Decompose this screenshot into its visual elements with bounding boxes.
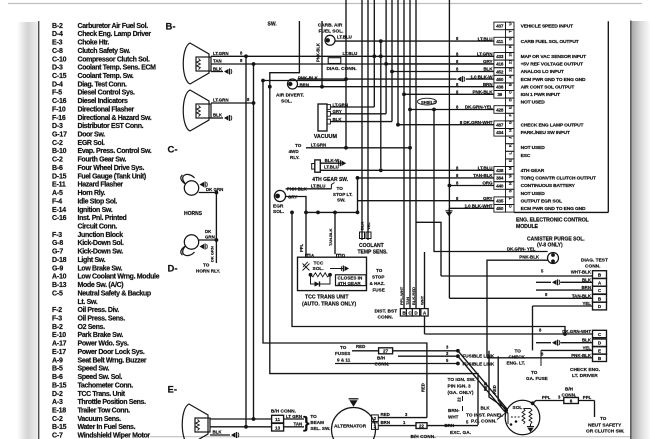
svg-text:A-17: A-17 (52, 341, 67, 348)
svg-text:Fuel Gauge (Tank Unit): Fuel Gauge (Tank Unit) (78, 173, 146, 180)
wire PPL to B/H conn 6 (533, 401, 564, 404)
svg-text:S: S (508, 189, 513, 192)
svg-text:487: 487 (496, 123, 504, 128)
legend component index (52, 23, 160, 439)
wire BRN diag (536, 289, 593, 291)
svg-text:Speed Sw. Sol.: Speed Sw. Sol. (78, 374, 123, 381)
svg-text:DK GRN: DK GRN (206, 187, 223, 192)
svg-text:Carburetor Air Fuel Sol.: Carburetor Air Fuel Sol. (78, 23, 149, 30)
svg-text:22: 22 (419, 423, 424, 428)
svg-text:TAN: TAN (213, 59, 222, 64)
svg-text:BRN: BRN (381, 420, 391, 425)
svg-text:E-17: E-17 (52, 349, 66, 356)
svg-text:G-17: G-17 (52, 132, 67, 139)
svg-text:LT GRN: LT GRN (286, 414, 302, 419)
svg-text:C-2: C-2 (52, 416, 63, 423)
svg-text:B: B (508, 83, 513, 86)
svg-text:FUSIBLE LINK: FUSIBLE LINK (463, 354, 495, 359)
svg-text:ECM PWR GND TO ENG GND: ECM PWR GND TO ENG GND (521, 206, 586, 212)
svg-text:WHT: WHT (419, 295, 424, 305)
svg-text:PNK-BLK: PNK-BLK (316, 43, 321, 62)
svg-text:E-: E- (168, 385, 178, 396)
svg-text:Horn Rly.: Horn Rly. (78, 190, 106, 197)
svg-text:CHECK ENG LAMP OUTPUT: CHECK ENG LAMP OUTPUT (521, 122, 584, 128)
svg-text:9 & 11: 9 & 11 (337, 358, 351, 363)
svg-text:Diesel Indicators: Diesel Indicators (78, 98, 129, 105)
svg-text:BLK: BLK (213, 113, 223, 118)
svg-text:VEHICLE SPEED INPUT: VEHICLE SPEED INPUT (521, 24, 573, 30)
coil TCC (311, 273, 331, 277)
svg-text:G-7: G-7 (52, 249, 63, 256)
svg-text:452: 452 (496, 69, 504, 74)
horn C1 (184, 181, 198, 195)
svg-text:436: 436 (496, 85, 504, 90)
wire diag test BRN (593, 286, 607, 294)
svg-text:4WD: 4WD (289, 149, 300, 154)
svg-text:DK.GRN-WHT: DK.GRN-WHT (562, 329, 591, 334)
solenoid EGR (274, 190, 285, 201)
vacuum sensor (318, 104, 327, 131)
svg-text:PIN IGN. 3: PIN IGN. 3 (448, 384, 472, 390)
wire EGR LT.BLU to stop lt sw (286, 188, 332, 190)
svg-text:438: 438 (496, 168, 504, 173)
wire DK.GRN-YEL to pin 428 (410, 109, 494, 111)
svg-text:U: U (508, 22, 513, 25)
wire LT.GRN horn B1 (211, 55, 494, 57)
svg-text:ENG. LT.: ENG. LT. (507, 361, 526, 366)
wire vertical to B/H conn 13 (245, 56, 247, 427)
svg-text:OUTPUT EGR SOL: OUTPUT EGR SOL (521, 198, 563, 204)
svg-text:TO: TO (600, 416, 607, 421)
connector inside TCC (330, 268, 344, 270)
svg-text:D-18: D-18 (52, 257, 67, 264)
svg-text:F: F (508, 113, 513, 116)
svg-text:MODULE: MODULE (516, 224, 539, 230)
wire YEL check eng (541, 349, 593, 351)
svg-text:TCC: TCC (314, 261, 324, 267)
svg-text:J: J (508, 137, 513, 139)
svg-text:A-5: A-5 (52, 190, 63, 197)
wire TCC pin D vertical (338, 254, 340, 257)
wire WHT-BLK diag (441, 275, 593, 277)
svg-text:RED: RED (483, 382, 488, 391)
wire vertical x=346 (345, 0, 347, 148)
wire LT.BLU 4th gear to pin 438 (320, 169, 494, 171)
svg-text:}: } (303, 413, 310, 432)
solenoid air diverter (288, 79, 298, 89)
svg-text:TORQ CONVTR CLUTCH OUTPUT: TORQ CONVTR CLUTCH OUTPUT (521, 176, 596, 182)
wire BLK diag with connector (536, 281, 551, 283)
svg-text:20: 20 (508, 51, 513, 56)
svg-text:EXC. GA.: EXC. GA. (450, 430, 471, 436)
svg-text:ANALOG LO INPUT: ANALOG LO INPUT (521, 69, 564, 75)
svg-text:Directional Flasher: Directional Flasher (78, 106, 135, 113)
svg-text:(V-8 ONLY): (V-8 ONLY) (537, 243, 563, 249)
svg-text:GRY: GRY (288, 195, 297, 200)
sensor coolant temp (360, 232, 365, 239)
svg-text:C-8: C-8 (52, 48, 63, 55)
ground inside sol (530, 424, 532, 427)
svg-text:BRN-: BRN- (448, 408, 460, 413)
svg-text:YEL: YEL (582, 301, 591, 306)
wire vertical x=416 (415, 0, 417, 309)
svg-text:TCC Trans. Unit: TCC Trans. Unit (78, 391, 126, 398)
svg-text:450: 450 (496, 206, 504, 211)
shield loop symbol (418, 98, 437, 105)
svg-text:Coolant Temp. Sens. ECM: Coolant Temp. Sens. ECM (78, 65, 157, 72)
wire DK.GRN-WHT check eng (425, 333, 593, 335)
svg-text:B-13: B-13 (52, 282, 67, 289)
svg-text:PNK-BLK: PNK-BLK (571, 353, 592, 358)
wire EGR GRY bus (286, 197, 306, 258)
svg-text:HORN RLY.: HORN RLY. (196, 269, 220, 274)
svg-text:E: E (598, 348, 601, 353)
svg-text:Idle Stop Sol.: Idle Stop Sol. (78, 198, 118, 205)
svg-text:E-10: E-10 (52, 332, 66, 339)
wire TAN-BLK to pin 384 (358, 177, 494, 179)
svg-text:BLK: BLK (481, 406, 491, 411)
svg-text:SW.: SW. (337, 198, 345, 203)
wire BLK to pin 452 (392, 71, 494, 73)
svg-text:E: E (508, 106, 513, 109)
wire diag test WHT-BLK (593, 271, 607, 279)
svg-text:H: H (508, 129, 513, 132)
svg-text:WHT-BLK: WHT-BLK (571, 270, 592, 275)
svg-text:B-5: B-5 (52, 366, 63, 373)
svg-text:N: N (508, 182, 513, 185)
svg-text:ENG. ELECTRONIC CONTROL: ENG. ELECTRONIC CONTROL (516, 218, 590, 224)
horn B2 (speaker) (183, 90, 209, 131)
svg-text:CHECK: CHECK (509, 355, 526, 360)
svg-text:39: 39 (497, 92, 502, 97)
svg-text:CARB FUEL SOL OUTPUT: CARB FUEL SOL OUTPUT (521, 39, 579, 45)
wire diag test YEL (593, 302, 607, 310)
svg-text:F-3: F-3 (52, 316, 62, 323)
svg-text:F-2: F-2 (52, 307, 62, 314)
svg-text:Oil Press. Div.: Oil Press. Div. (78, 307, 120, 314)
top card border (8, 3, 642, 5)
svg-text:IGN 1 PWR INPUT: IGN 1 PWR INPUT (521, 92, 560, 98)
svg-text:D: D (342, 253, 345, 258)
svg-text:F-10: F-10 (52, 106, 66, 113)
svg-text:Diag. Test Conn.: Diag. Test Conn. (78, 81, 128, 88)
svg-text:TO: TO (337, 186, 344, 191)
svg-text:LT.BLU: LT.BLU (337, 35, 352, 40)
ground at pin 450 lower (449, 207, 494, 209)
wire check-eng DK.GRN-WHT (593, 330, 607, 337)
svg-text:NOT USED: NOT USED (521, 145, 546, 151)
svg-text:BLK-W: BLK-W (325, 158, 340, 163)
svg-text:RED: RED (356, 344, 365, 349)
bottom card border (150, 436, 642, 438)
svg-text:PPL: PPL (583, 395, 592, 400)
wire RED alternator (378, 417, 427, 419)
svg-text:BLK: BLK (582, 338, 592, 343)
svg-text:Diesel Control Sys.: Diesel Control Sys. (78, 90, 136, 97)
svg-text:D: D (508, 98, 513, 101)
svg-text:E-11: E-11 (52, 182, 66, 189)
svg-text:C-16: C-16 (52, 215, 67, 222)
svg-text:BLK: BLK (213, 66, 223, 71)
left page curl (17, 22, 39, 439)
svg-text:& HAZ.: & HAZ. (370, 281, 385, 286)
wire vertical x=398 (397, 0, 399, 125)
svg-text:DK.GRN- YEL: DK.GRN- YEL (507, 246, 536, 251)
horn C2 (184, 235, 198, 249)
svg-text:Windshield Wiper Motor: Windshield Wiper Motor (78, 433, 151, 439)
wire LT.BLU carb sol to pin 411 (335, 40, 494, 42)
wire GRY to pin 416 (386, 63, 494, 65)
svg-text:SEL. SW.: SEL. SW. (310, 426, 330, 431)
wire PNK-BLK check eng (487, 357, 593, 359)
svg-text:DIAG. CONN.: DIAG. CONN. (327, 66, 357, 72)
svg-text:Neutral Safety & Backup: Neutral Safety & Backup (78, 290, 151, 297)
svg-text:TAN-BLK: TAN-BLK (328, 228, 333, 246)
svg-text:E-3: E-3 (52, 40, 63, 47)
svg-text:TAN: TAN (405, 297, 410, 305)
svg-text:G: G (508, 121, 513, 124)
svg-text:(AUTO. TRANS ONLY): (AUTO. TRANS ONLY) (302, 301, 356, 307)
svg-text:435: 435 (496, 199, 504, 204)
wire vertical x=386.1 (385, 0, 387, 114)
svg-text:LT.GRN: LT.GRN (213, 51, 229, 56)
svg-text:B-6: B-6 (52, 374, 63, 381)
wire vertical x=374.3 (373, 0, 375, 107)
svg-text:4TH GEAR: 4TH GEAR (338, 281, 362, 286)
diode TCC (311, 275, 315, 284)
svg-text:416: 416 (496, 62, 504, 67)
svg-text:Circuit Conn.: Circuit Conn. (78, 224, 118, 231)
svg-text:Door Sw.: Door Sw. (78, 132, 106, 139)
svg-text:Compressor Clutch Sol.: Compressor Clutch Sol. (78, 56, 150, 63)
svg-text:Junction Block: Junction Block (78, 232, 124, 239)
svg-text:Coolant Temp. Sw.: Coolant Temp. Sw. (78, 73, 134, 80)
svg-text:Evap. Press. Control Sw.: Evap. Press. Control Sw. (78, 148, 152, 155)
wire vertical x=410 (409, 0, 411, 309)
svg-text:C-: C- (168, 145, 178, 156)
closes in 4th gear box (336, 275, 367, 286)
svg-text:GRN: GRN (205, 235, 215, 240)
svg-text:(GA. ONLY): (GA. ONLY) (448, 390, 474, 396)
wire diagonal feeds to solenoid (458, 351, 508, 410)
svg-text:SOL.: SOL. (281, 99, 292, 105)
svg-text:C: C (508, 205, 513, 208)
wire diag test BLK (593, 278, 607, 286)
svg-text:Throttle Position Sens.: Throttle Position Sens. (78, 399, 147, 406)
svg-text:CONN.: CONN. (585, 264, 600, 270)
svg-text:B-2: B-2 (52, 23, 63, 30)
wire to GA fuse (540, 350, 542, 366)
wire fuse 27 to fusible link (393, 350, 458, 352)
svg-text:A: A (508, 76, 513, 79)
wire vertical x=404 (403, 0, 405, 309)
svg-text:CHECK ENG.: CHECK ENG. (570, 367, 600, 373)
wire BRN alternator through fuse 22 (378, 425, 416, 427)
svg-text:WHT: WHT (448, 415, 459, 420)
svg-text:PARK./NEU SW INPUT: PARK./NEU SW INPUT (521, 130, 570, 136)
svg-text:PNK-BLK: PNK-BLK (298, 75, 319, 80)
wire TAN-BLK vertical to TCC pin D (334, 212, 336, 254)
svg-text:RLY.: RLY. (290, 155, 300, 160)
svg-text:YEL: YEL (582, 345, 591, 350)
svg-text:TAN-BLK: TAN-BLK (572, 293, 592, 298)
ECM pin wire colour labels (456, 36, 493, 208)
svg-text:B-: B- (166, 22, 176, 33)
svg-text:B-10: B-10 (52, 148, 67, 155)
svg-text:SOL.: SOL. (273, 209, 284, 215)
wire DK GRN horn C2 (199, 239, 217, 241)
wire BLK wiper with connector (210, 434, 230, 436)
svg-text:TO: TO (376, 268, 383, 273)
svg-text:F-16: F-16 (52, 115, 66, 122)
svg-text:SOL.: SOL. (313, 266, 324, 272)
svg-text:Kick-Down Sol.: Kick-Down Sol. (78, 240, 124, 247)
wire DK GRN horn C1 (199, 192, 217, 194)
svg-text:Check Eng. Lamp Driver: Check Eng. Lamp Driver (78, 31, 152, 38)
svg-text:LT.BLU: LT.BLU (324, 165, 339, 170)
wire bus B (RED feed) (263, 81, 427, 418)
svg-text:CONN.: CONN. (562, 393, 577, 398)
right page curl (631, 21, 650, 439)
svg-text:W: W (508, 174, 513, 178)
svg-text:EGR: EGR (273, 204, 284, 210)
svg-text:D-4: D-4 (52, 81, 63, 88)
svg-text:DK: DK (205, 229, 212, 234)
svg-text:D-3: D-3 (52, 65, 63, 72)
wire check-eng PNK-BLK (593, 354, 607, 361)
svg-text:R: R (508, 45, 513, 48)
svg-text:4TH GEAR SW.: 4TH GEAR SW. (312, 177, 348, 183)
svg-text:433: 433 (496, 54, 504, 59)
svg-text:384: 384 (496, 176, 504, 181)
svg-text:YEL: YEL (366, 222, 371, 230)
svg-text:NOT USED: NOT USED (521, 100, 546, 106)
svg-text:TO: TO (295, 143, 302, 148)
svg-text:SW.: SW. (268, 22, 278, 28)
wire bus A (292, 212, 565, 334)
svg-text:B/H CONN.: B/H CONN. (411, 434, 436, 439)
svg-text:6: 6 (570, 398, 573, 403)
svg-text:Low Brake Sw.: Low Brake Sw. (78, 265, 123, 272)
svg-text:RED: RED (381, 412, 390, 417)
wire BRN to pin 436 (298, 86, 494, 88)
wire to inst panel arrow (497, 413, 506, 420)
wire RED verticals (489, 351, 507, 409)
svg-text:LT.BLU: LT.BLU (311, 183, 326, 188)
svg-text:OR CLUTCH SW.: OR CLUTCH SW. (586, 429, 624, 435)
svg-text:22: 22 (508, 67, 513, 72)
svg-text:Inst. Pnl. Printed: Inst. Pnl. Printed (78, 215, 127, 222)
svg-text:4TH GEAR: 4TH GEAR (521, 168, 545, 174)
wire TAN-BLK diag (449, 297, 592, 299)
svg-text:Light Sw.: Light Sw. (78, 257, 106, 264)
wire BLK horn B1 with connector (211, 71, 223, 73)
svg-text:D-2: D-2 (52, 391, 63, 398)
svg-text:F-4: F-4 (52, 198, 62, 205)
ground alternator top (349, 398, 359, 400)
svg-text:RED: RED (421, 383, 426, 392)
svg-text:Oil Press. Sens.: Oil Press. Sens. (78, 316, 126, 323)
svg-text:D-4: D-4 (52, 31, 63, 38)
svg-text:ALTERNATOR: ALTERNATOR (334, 423, 367, 429)
svg-text:11: 11 (275, 417, 280, 422)
svg-text:Directional & Hazard Sw.: Directional & Hazard Sw. (78, 115, 152, 122)
svg-text:450: 450 (496, 77, 504, 82)
svg-text:F-5: F-5 (52, 90, 62, 97)
svg-text:P.C. CONN.: P.C. CONN. (471, 419, 497, 425)
wire LT.GRN to pin 433 (372, 54, 376, 58)
svg-text:C-15: C-15 (52, 73, 67, 80)
svg-text:G-9: G-9 (52, 265, 63, 272)
relay TCC trans unit box (298, 257, 367, 290)
svg-text:27: 27 (383, 349, 389, 354)
svg-text:B/H: B/H (377, 356, 386, 361)
wire PNK-BLK canister (416, 222, 441, 276)
svg-text:22: 22 (457, 397, 462, 402)
svg-text:LT.GRN: LT.GRN (311, 143, 327, 148)
svg-text:Hazard Flasher: Hazard Flasher (78, 182, 124, 189)
svg-text:RED: RED (492, 385, 497, 394)
wire vacuum BLK (330, 121, 392, 123)
svg-text:CONTINUOUS BATTERY: CONTINUOUS BATTERY (521, 183, 576, 189)
svg-text:D-15: D-15 (52, 173, 67, 180)
svg-text:A-10: A-10 (52, 274, 67, 281)
svg-text:EGR Sol.: EGR Sol. (78, 140, 106, 147)
svg-text:B-2: B-2 (52, 324, 63, 331)
wire YEL diag (533, 305, 593, 307)
svg-text:C-7: C-7 (52, 433, 63, 439)
svg-text:437: 437 (496, 24, 504, 29)
svg-text:PPL: PPL (542, 395, 551, 400)
svg-text:Fourth Gear Sw.: Fourth Gear Sw. (78, 157, 127, 164)
svg-text:BRN: BRN (300, 83, 310, 88)
wire BLK check eng with connector (536, 342, 551, 344)
wire fusible link 2 (335, 363, 458, 365)
svg-text:Low Coolant Wrng. Module: Low Coolant Wrng. Module (78, 274, 160, 281)
svg-text:B-15: B-15 (52, 382, 67, 389)
svg-text:Water In Fuel Sens.: Water In Fuel Sens. (78, 424, 136, 431)
svg-text:BLK-RED: BLK-RED (411, 287, 416, 305)
svg-text:E: E (508, 159, 513, 162)
wire DK.GRN-WHT to pin 487 (398, 124, 494, 126)
svg-text:+5V REF VOLTAGE OUTPUT: +5V REF VOLTAGE OUTPUT (521, 62, 584, 68)
svg-text:C-2: C-2 (52, 140, 63, 147)
wire vacuum LT.GRN (330, 106, 374, 108)
wire vertical to B/H conn 11 (253, 64, 255, 419)
svg-text:Power Door Lock Sys.: Power Door Lock Sys. (78, 349, 145, 356)
svg-text:C: C (508, 91, 513, 94)
svg-text:C-5: C-5 (52, 290, 63, 297)
wire check-eng YEL (593, 347, 607, 354)
svg-text:E-18: E-18 (52, 407, 66, 414)
svg-text:STOP: STOP (372, 275, 384, 280)
svg-text:Four Wheel Drive Sys.: Four Wheel Drive Sys. (78, 165, 145, 172)
svg-text:21: 21 (508, 59, 513, 64)
wire vertical x=362 (361, 0, 363, 240)
svg-text:D-3: D-3 (52, 123, 63, 130)
svg-text:A-9: A-9 (52, 357, 63, 364)
wire ORG to pin 440 (449, 185, 494, 187)
svg-text:Mode Sw. (A/C): Mode Sw. (A/C) (78, 282, 124, 289)
motor windshield wiper (182, 404, 208, 439)
wire wiper to B/H conn 13 (210, 426, 272, 428)
svg-text:Clutch Safety Sw.: Clutch Safety Sw. (78, 48, 131, 55)
wire PNK-BLK vertical (carb sol) (321, 21, 323, 87)
svg-text:PPL: PPL (299, 243, 304, 252)
svg-text:TO: TO (531, 370, 538, 375)
wire horns to horn relay (215, 193, 217, 264)
svg-text:PNK-BLK: PNK-BLK (519, 255, 540, 260)
